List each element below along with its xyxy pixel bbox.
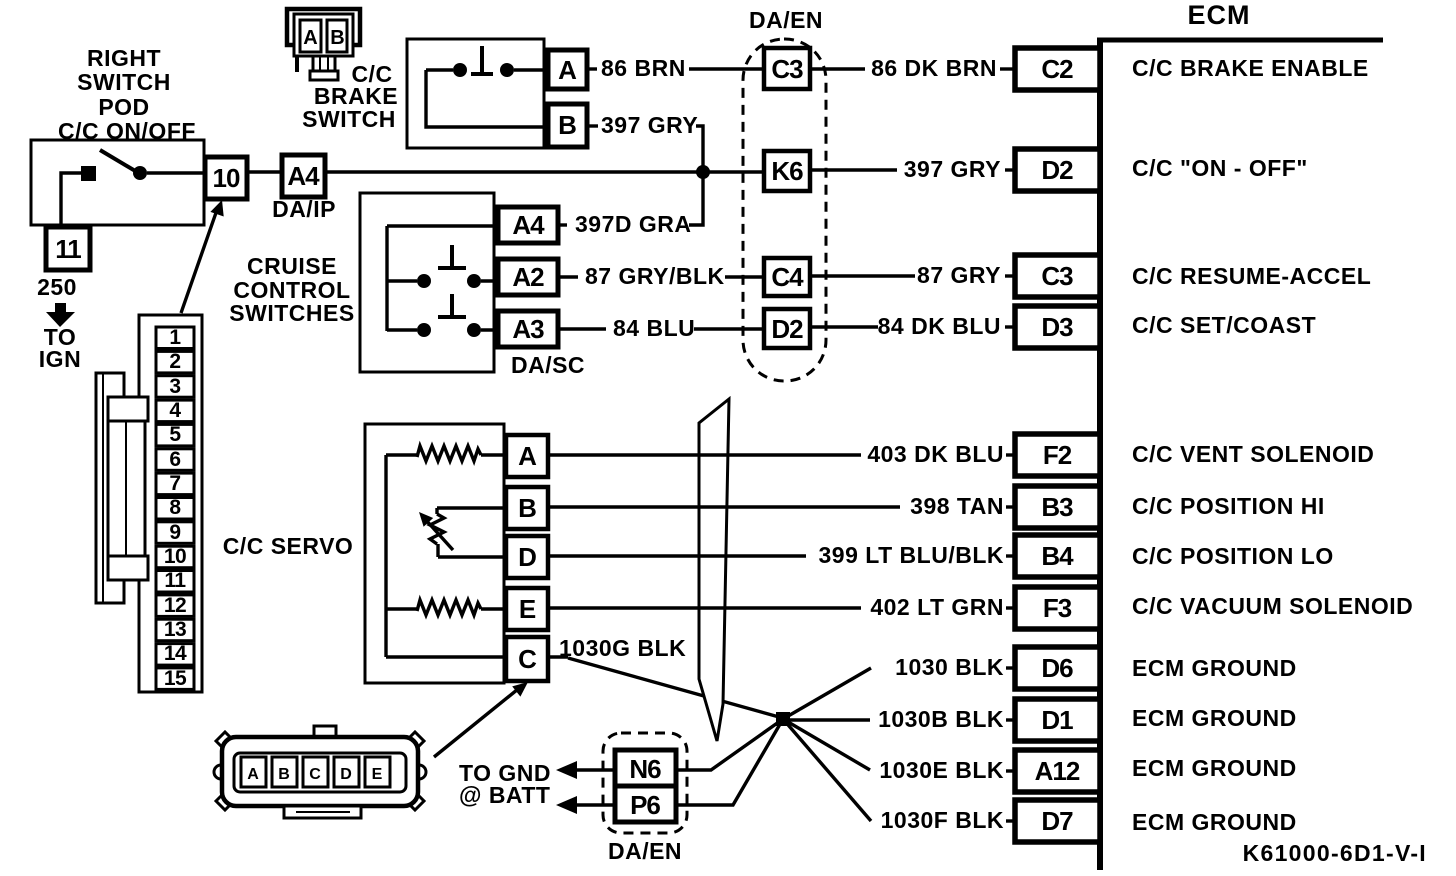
svg-text:D: D — [518, 542, 536, 572]
DA/EN dashed connector outline — [743, 39, 826, 381]
wire 87 GRY/BLK — [558, 275, 578, 278]
svg-text:POD: POD — [98, 94, 149, 120]
svg-text:DA/SC: DA/SC — [511, 352, 585, 378]
wire switch to pin 10 — [147, 171, 205, 174]
servo bus wire — [384, 455, 387, 657]
svg-text:4: 4 — [169, 399, 181, 422]
svg-text:D2: D2 — [771, 314, 803, 344]
vent solenoid coil — [386, 453, 417, 456]
connector pin K6 — [764, 151, 810, 191]
svg-text:87 GRY/BLK: 87 GRY/BLK — [585, 263, 725, 289]
svg-text:RIGHT: RIGHT — [87, 45, 161, 71]
pin 11 — [46, 227, 90, 270]
wire 397D GRA — [558, 223, 567, 226]
svg-text:5: 5 — [169, 423, 181, 446]
svg-text:C/C POSITION LO: C/C POSITION LO — [1132, 543, 1334, 569]
svg-text:E: E — [372, 766, 383, 783]
ECM pin F2 — [1015, 434, 1100, 476]
svg-text:C/C VENT SOLENOID: C/C VENT SOLENOID — [1132, 441, 1374, 467]
wire pin 10 to connector A4 — [247, 170, 282, 173]
svg-text:B4: B4 — [1041, 541, 1074, 571]
wire 1030E BLK — [783, 719, 870, 770]
cruise switch pin A4 — [498, 207, 558, 243]
resume switch contacts — [387, 279, 417, 282]
wire 86 BRN — [587, 67, 597, 70]
svg-text:C/C "ON - OFF": C/C "ON - OFF" — [1132, 155, 1308, 181]
wire 1030G BLK stub — [548, 655, 568, 658]
svg-text:11: 11 — [55, 234, 81, 264]
ECM pin D6 — [1015, 647, 1100, 689]
svg-text:15: 15 — [164, 667, 187, 690]
servo connector cavity E — [365, 757, 390, 787]
svg-text:K6: K6 — [771, 156, 803, 186]
harness sleeve — [699, 399, 729, 741]
svg-text:87 GRY: 87 GRY — [917, 262, 1001, 288]
connector pin 5 — [156, 424, 194, 446]
connector pin 1 — [156, 327, 194, 349]
connector pin 8 — [156, 498, 194, 520]
connector pin P6 — [615, 786, 676, 822]
svg-text:ECM: ECM — [1188, 0, 1251, 30]
svg-text:E: E — [519, 594, 536, 624]
svg-text:A: A — [518, 441, 537, 471]
ECM pin B3 — [1015, 486, 1100, 528]
svg-text:8: 8 — [169, 496, 181, 519]
connector pin 3 — [156, 376, 194, 398]
svg-text:C3: C3 — [1041, 261, 1073, 291]
set switch contacts — [387, 328, 417, 331]
wire 1030G BLK diagonal to ground junction — [568, 658, 779, 717]
switch S1 blade — [100, 150, 137, 172]
wire A4 to K6 — [325, 170, 764, 173]
connector pin N6 — [615, 750, 676, 786]
svg-text:C: C — [309, 766, 321, 783]
connector pin 2 — [156, 351, 194, 373]
svg-text:SWITCHES: SWITCHES — [229, 300, 354, 326]
svg-text:1030F BLK: 1030F BLK — [881, 807, 1004, 833]
switch pod S1 box — [31, 140, 204, 225]
svg-text:6: 6 — [169, 448, 180, 471]
ECM pin D3 — [1015, 306, 1100, 348]
ECM boundary vertical line — [1097, 38, 1103, 870]
wire 1030F BLK — [783, 719, 871, 821]
svg-text:13: 13 — [164, 618, 186, 641]
svg-text:B: B — [278, 766, 290, 783]
resume switch plunger — [450, 245, 454, 267]
svg-text:10: 10 — [213, 163, 240, 193]
pointer arrow from connector to pin 10 — [181, 207, 218, 313]
servo connector icon shell — [222, 737, 418, 806]
wire 397 GRY vertical to junction — [689, 126, 703, 225]
svg-text:D2: D2 — [1041, 155, 1073, 185]
servo connector cavity C — [303, 757, 328, 787]
connector pin C4 — [764, 258, 810, 296]
servo pin A — [506, 435, 548, 477]
svg-text:86 DK BRN: 86 DK BRN — [871, 55, 997, 81]
servo pin D — [506, 536, 548, 578]
svg-text:D: D — [340, 766, 352, 783]
svg-text:K61000-6D1-V-I: K61000-6D1-V-I — [1243, 840, 1427, 866]
connector pin 10 — [156, 546, 194, 568]
connector pin 9 — [156, 522, 194, 544]
connector pin 12 — [156, 595, 194, 617]
svg-text:399 LT BLU/BLK: 399 LT BLU/BLK — [819, 542, 1004, 568]
connector side housing — [96, 373, 148, 603]
svg-text:1030G BLK: 1030G BLK — [559, 635, 686, 661]
ECM pin D2 — [1015, 149, 1100, 191]
svg-text:10: 10 — [164, 545, 186, 568]
svg-text:F3: F3 — [1043, 593, 1072, 623]
ECM pin A12 — [1015, 750, 1100, 792]
svg-text:DA/EN: DA/EN — [608, 838, 682, 864]
svg-text:B: B — [558, 110, 576, 140]
svg-text:C/C SET/COAST: C/C SET/COAST — [1132, 312, 1316, 338]
svg-text:86 BRN: 86 BRN — [601, 55, 686, 81]
label C/C BRAKE SWITCH — [302, 61, 398, 132]
wire 87 GRY — [810, 274, 915, 277]
cruise switches bus wire — [385, 226, 388, 331]
svg-text:1: 1 — [169, 326, 181, 349]
wire 403 DK BLU — [548, 453, 861, 456]
junction node 397 — [696, 165, 710, 179]
wire 86 DK BRN — [810, 67, 865, 70]
connector pin C3 — [764, 48, 810, 89]
svg-text:C/C RESUME-ACCEL: C/C RESUME-ACCEL — [1132, 263, 1371, 289]
svg-text:ECM GROUND: ECM GROUND — [1132, 705, 1297, 731]
svg-text:A: A — [247, 766, 259, 783]
svg-text:14: 14 — [164, 642, 187, 665]
brake switch internal wire to pin B — [426, 70, 548, 127]
svg-text:250: 250 — [37, 274, 77, 300]
svg-text:D3: D3 — [1041, 312, 1073, 342]
connector pin 6 — [156, 449, 194, 471]
svg-text:IGN: IGN — [39, 346, 81, 372]
svg-text:SWITCH: SWITCH — [77, 69, 171, 95]
label CRUISE CONTROL SWITCHES — [229, 253, 354, 326]
pin 10 — [205, 157, 247, 199]
svg-text:ECM GROUND: ECM GROUND — [1132, 655, 1297, 681]
servo ground wire — [386, 655, 506, 658]
connector pin 14 — [156, 644, 194, 666]
svg-text:CRUISE: CRUISE — [247, 253, 337, 279]
svg-text:B: B — [518, 493, 536, 523]
connector pin 11 — [156, 571, 194, 593]
svg-text:1030E BLK: 1030E BLK — [879, 757, 1004, 783]
vacuum solenoid coil — [386, 607, 417, 610]
svg-text:B3: B3 — [1041, 492, 1073, 522]
brake switch plunger — [480, 46, 484, 72]
wire 397 GRY from pin B — [587, 124, 598, 127]
svg-text:C4: C4 — [771, 262, 804, 292]
svg-text:A: A — [303, 27, 317, 49]
wire 1030B BLK — [789, 718, 870, 721]
svg-text:A2: A2 — [512, 262, 544, 292]
servo connector icon tab top — [314, 726, 336, 739]
svg-text:SWITCH: SWITCH — [302, 106, 396, 132]
ECM pin D7 — [1015, 800, 1100, 842]
position sensor wiper arrow — [425, 519, 453, 550]
svg-text:@ BATT: @ BATT — [459, 782, 550, 808]
arrow to ignition — [55, 303, 66, 313]
set switch plunger — [450, 294, 454, 316]
svg-text:12: 12 — [164, 594, 186, 617]
connector pin 13 — [156, 619, 194, 641]
brake switch contacts — [426, 68, 453, 71]
svg-text:1030B BLK: 1030B BLK — [878, 706, 1004, 732]
wire junction to N6 — [676, 719, 783, 770]
pointer arrow from connector icon to servo pin C — [434, 685, 523, 757]
svg-text:11: 11 — [164, 569, 186, 592]
DA/EN dashed connector bottom — [603, 733, 687, 833]
brake switch connector icon — [287, 9, 360, 80]
position sensor low wire — [438, 555, 506, 558]
servo connector cavity D — [334, 757, 359, 787]
servo connector icon tab bottom — [284, 806, 361, 818]
wire junction to P6 — [676, 719, 783, 805]
svg-text:D7: D7 — [1041, 806, 1073, 836]
brake switch pin B — [548, 104, 587, 147]
servo pin B — [506, 487, 548, 529]
wire 398 TAN — [548, 505, 900, 508]
svg-text:B: B — [330, 27, 344, 49]
svg-text:397 GRY: 397 GRY — [601, 112, 698, 138]
wire 1030 BLK — [783, 668, 871, 719]
position sensor wiper wire — [437, 506, 506, 509]
connector pin 15 — [156, 668, 194, 690]
wire from pin 11 to switch contact — [61, 173, 81, 231]
svg-text:C/C SERVO: C/C SERVO — [223, 533, 354, 559]
svg-text:A3: A3 — [512, 314, 544, 344]
servo connector cavity B — [272, 757, 297, 787]
connector pin A4 DA/IP — [282, 155, 325, 197]
wire P6 to ground arrow — [576, 803, 615, 806]
servo pin E — [506, 588, 548, 630]
brake switch pin A — [548, 50, 587, 89]
switch S1 left contact — [81, 166, 96, 181]
svg-text:F2: F2 — [1043, 440, 1072, 470]
servo box — [365, 424, 504, 683]
svg-text:C3: C3 — [771, 54, 803, 84]
svg-text:A: A — [558, 55, 577, 85]
switch S1 right contact — [133, 166, 147, 180]
svg-text:2: 2 — [169, 350, 180, 373]
cruise control switches box — [360, 193, 494, 372]
svg-text:403 DK BLU: 403 DK BLU — [867, 441, 1004, 467]
wire 84 DK BLU — [810, 325, 878, 328]
ECM pin C3 — [1015, 255, 1100, 297]
svg-text:398 TAN: 398 TAN — [910, 493, 1004, 519]
connector pin 7 — [156, 473, 194, 495]
svg-text:84 BLU: 84 BLU — [613, 315, 695, 341]
svg-text:C/C BRAKE ENABLE: C/C BRAKE ENABLE — [1132, 55, 1369, 81]
brake switch S2 box — [407, 39, 544, 148]
wire 399 LT BLU/BLK — [548, 554, 806, 557]
svg-text:DA/EN: DA/EN — [749, 7, 823, 33]
ECM boundary top line — [1097, 38, 1383, 43]
cruise switches feed wire — [387, 224, 498, 227]
svg-text:ECM GROUND: ECM GROUND — [1132, 809, 1297, 835]
svg-text:A12: A12 — [1035, 756, 1080, 786]
svg-text:C2: C2 — [1041, 54, 1073, 84]
svg-text:P6: P6 — [630, 790, 660, 820]
svg-text:D1: D1 — [1041, 705, 1073, 735]
wire 397 GRY right — [810, 168, 897, 171]
connector pin 4 — [156, 400, 194, 422]
label RIGHT SWITCH POD C/C ON/OFF — [58, 45, 196, 144]
svg-text:9: 9 — [169, 521, 180, 544]
svg-text:397 GRY: 397 GRY — [904, 156, 1001, 182]
svg-text:DA/IP: DA/IP — [272, 196, 336, 222]
servo connector icon nubs — [214, 732, 426, 810]
svg-text:397D GRA: 397D GRA — [575, 211, 691, 237]
position sensor resistor — [430, 514, 444, 544]
servo connector cavity A — [241, 757, 266, 787]
svg-text:3: 3 — [169, 375, 180, 398]
svg-text:1030 BLK: 1030 BLK — [895, 654, 1004, 680]
svg-text:84 DK BLU: 84 DK BLU — [878, 313, 1001, 339]
servo pin C — [506, 637, 548, 681]
svg-text:C/C VACUUM SOLENOID: C/C VACUUM SOLENOID — [1132, 593, 1413, 619]
cruise switch pin A2 — [498, 259, 558, 295]
svg-text:A4: A4 — [512, 210, 545, 240]
svg-text:402 LT GRN: 402 LT GRN — [870, 594, 1004, 620]
wire N6 to ground arrow — [576, 768, 615, 771]
svg-text:N6: N6 — [629, 754, 661, 784]
svg-text:C: C — [518, 644, 537, 674]
svg-text:ECM GROUND: ECM GROUND — [1132, 755, 1297, 781]
svg-text:A4: A4 — [287, 161, 320, 191]
cruise switch pin A3 — [498, 311, 558, 347]
connector pin D2 — [764, 309, 810, 348]
svg-text:D6: D6 — [1041, 653, 1073, 683]
ECM pin D1 — [1015, 699, 1100, 741]
wire 84 BLU — [558, 327, 606, 330]
svg-text:C/C POSITION HI: C/C POSITION HI — [1132, 493, 1325, 519]
ECM pin F3 — [1015, 587, 1100, 629]
ECM pin B4 — [1015, 535, 1100, 577]
wire 402 LT GRN — [548, 606, 861, 609]
servo connector icon inner — [234, 753, 406, 792]
svg-text:7: 7 — [169, 472, 180, 495]
ground junction node — [776, 712, 790, 726]
ECM pin C2 — [1015, 48, 1100, 90]
15-pin connector shell — [139, 315, 202, 692]
